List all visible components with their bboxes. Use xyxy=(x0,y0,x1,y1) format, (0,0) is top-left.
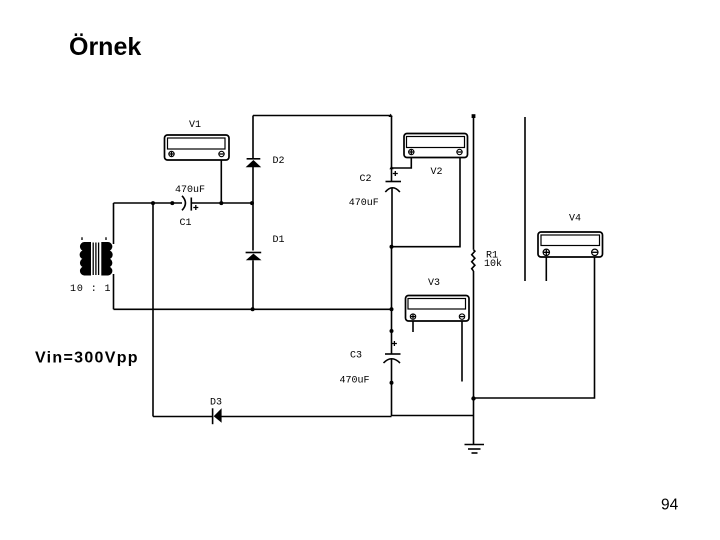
svg-text:470uF: 470uF xyxy=(340,376,370,387)
svg-text:10 : 1: 10 : 1 xyxy=(70,284,111,295)
wire V4 left terminal stub xyxy=(545,257,547,281)
junction dot at (391.5,331) xyxy=(390,329,394,333)
wire V3 right terminal down xyxy=(461,321,463,382)
resistor R1 xyxy=(472,250,475,271)
voltmeter V3 xyxy=(406,296,470,322)
svg-text:C3: C3 xyxy=(350,351,362,362)
svg-text:470uF: 470uF xyxy=(349,198,379,209)
node marker at (391.5,168) xyxy=(389,166,393,170)
svg-text:V3: V3 xyxy=(428,278,440,289)
wire V1 right terminal down xyxy=(220,160,222,203)
diode D1 xyxy=(246,253,262,261)
voltmeter V1 xyxy=(165,135,230,160)
junction dot at (391.5,246.7) xyxy=(390,245,394,249)
svg-text:Örnek: Örnek xyxy=(69,32,141,61)
transformer T1 10:1 xyxy=(80,237,112,275)
wire transformer secondary top lead xyxy=(113,203,115,244)
svg-text:D2: D2 xyxy=(273,156,285,167)
wire transformer bottom to C3 column xyxy=(114,308,392,310)
wire top horizontal (D2 top to C2 column) xyxy=(253,115,392,117)
wire R1 column upper xyxy=(473,116,475,250)
junction dot at (221.3,203) xyxy=(219,201,223,205)
capacitor C1 xyxy=(182,196,198,211)
wire R1 column lower xyxy=(473,271,475,444)
wire transformer secondary bottom lead xyxy=(113,274,115,309)
capacitor C3 xyxy=(384,341,401,416)
node marker at top corner xyxy=(389,114,393,117)
junction dot at (473.5,398.5) xyxy=(471,396,475,400)
svg-text:D3: D3 xyxy=(210,398,222,409)
junction dot at (252.6,309.3) xyxy=(251,307,255,311)
ground xyxy=(465,445,485,454)
svg-text:V1: V1 xyxy=(189,120,201,131)
svg-text:D1: D1 xyxy=(273,235,285,246)
C2/C3 column middle xyxy=(391,247,393,354)
junction dot at (153,203) xyxy=(151,201,155,205)
wire V4 right terminal to R1 column xyxy=(474,257,595,398)
svg-text:V4: V4 xyxy=(569,214,581,225)
svg-text:V2: V2 xyxy=(431,167,443,178)
junction dot at (172.3,203) xyxy=(170,201,174,205)
wire D2 to node row xyxy=(252,116,254,204)
junction dot at (252,203) xyxy=(250,201,254,205)
wire bottom middle segment xyxy=(222,416,474,417)
capacitor C2 xyxy=(385,171,401,247)
wire left column (node to bottom wire) xyxy=(152,203,154,417)
voltmeter V2 xyxy=(404,134,468,158)
junction dot at (391.5,309.3) xyxy=(390,307,394,311)
voltmeter V4 xyxy=(538,232,603,257)
junction dot at (391.5,382.8) xyxy=(390,381,394,385)
wire D1 column xyxy=(252,203,254,309)
svg-text:470uF: 470uF xyxy=(175,185,205,196)
wire dangling vertical xyxy=(524,117,526,281)
svg-text:Vin=300Vpp: Vin=300Vpp xyxy=(35,350,139,367)
svg-text:C2: C2 xyxy=(360,174,372,185)
wire V2 right terminal down and left to C2 column xyxy=(392,158,460,247)
svg-text:94: 94 xyxy=(661,496,679,513)
svg-text:10k: 10k xyxy=(484,258,502,270)
main node wire (transformer to D column) xyxy=(114,202,183,204)
square node dot at (473.5,116) xyxy=(472,114,476,118)
svg-text:C1: C1 xyxy=(180,218,192,229)
wire bottom left segment xyxy=(153,416,212,418)
wire V2 left terminal to C2 column xyxy=(392,158,411,169)
wire V3 left terminal stub xyxy=(412,321,414,332)
diode D2 xyxy=(246,159,262,167)
diode D3 xyxy=(213,408,222,424)
wire C2 column vertical upper xyxy=(391,116,393,182)
